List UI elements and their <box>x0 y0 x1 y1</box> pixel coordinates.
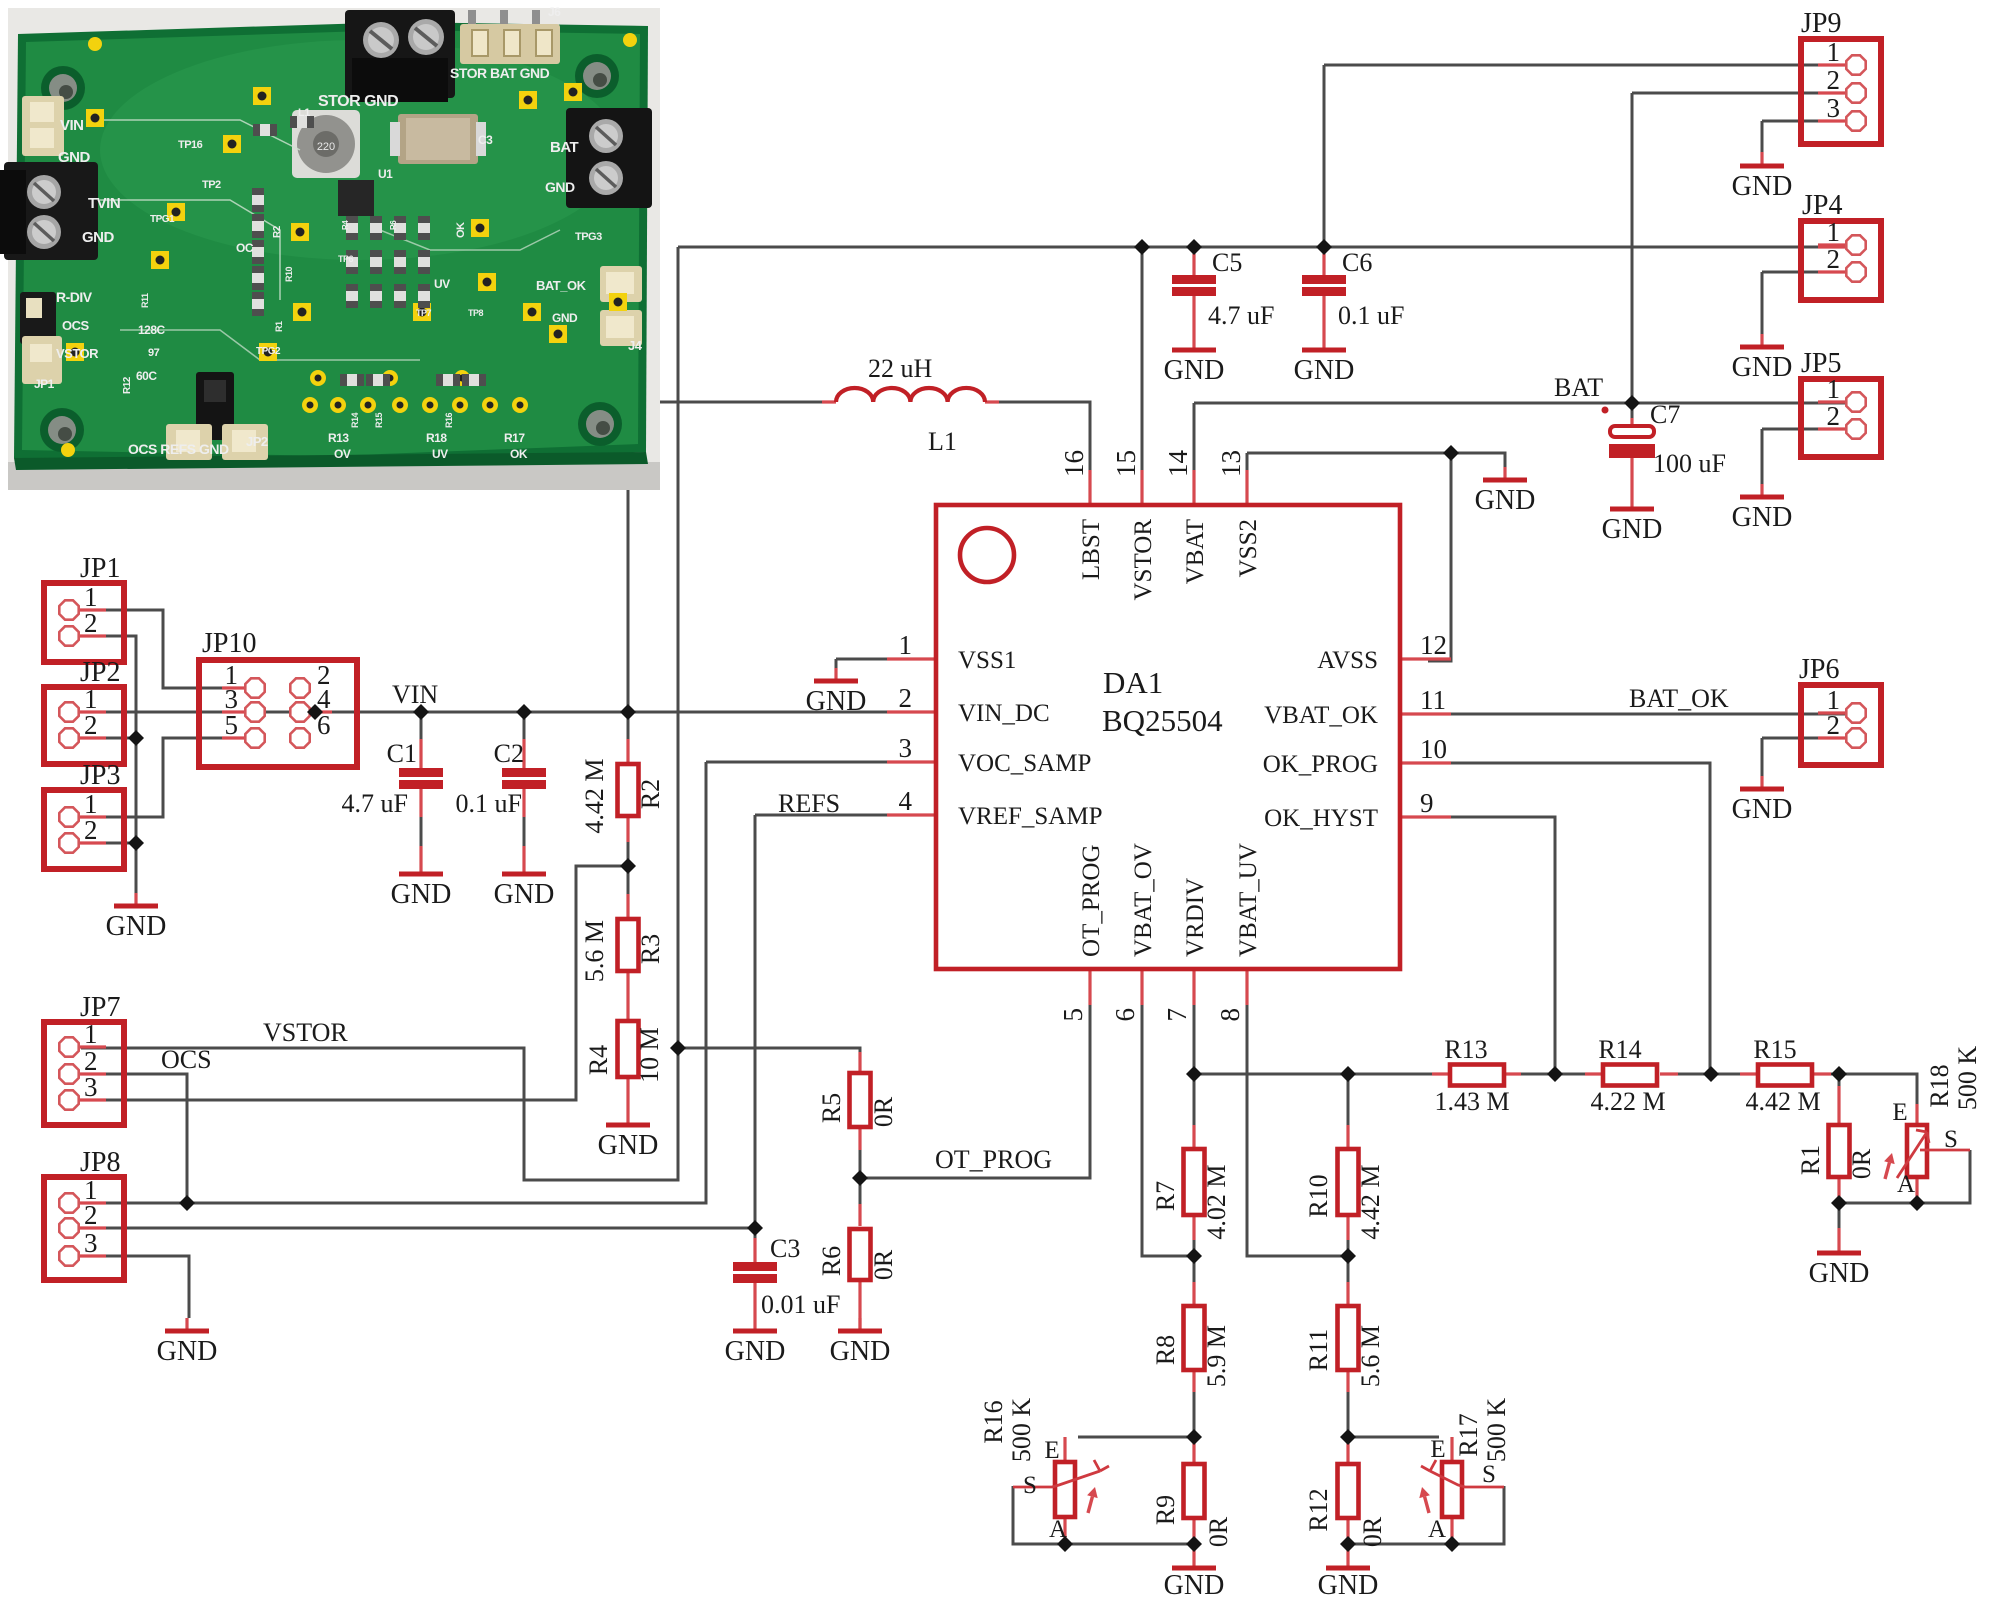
svg-text:U1: U1 <box>378 167 393 181</box>
svg-text:JP8: JP8 <box>80 1147 120 1178</box>
svg-text:1: 1 <box>899 630 913 660</box>
svg-text:15: 15 <box>1111 450 1141 477</box>
svg-text:GND: GND <box>1164 1570 1225 1597</box>
svg-text:R11: R11 <box>1304 1329 1333 1371</box>
svg-text:JP1: JP1 <box>80 553 120 584</box>
svg-text:R7: R7 <box>1151 1181 1180 1211</box>
svg-text:2: 2 <box>84 1200 98 1230</box>
svg-text:R13: R13 <box>1444 1035 1487 1064</box>
svg-text:JP2: JP2 <box>246 434 268 449</box>
svg-text:OK: OK <box>510 447 528 461</box>
svg-text:OK_PROG: OK_PROG <box>1263 751 1378 778</box>
svg-text:R17: R17 <box>1454 1413 1483 1456</box>
svg-text:GND: GND <box>552 311 578 325</box>
svg-text:4.7 uF: 4.7 uF <box>1208 301 1274 330</box>
svg-text:500 K: 500 K <box>1482 1398 1511 1463</box>
svg-text:2: 2 <box>1827 401 1841 431</box>
svg-text:1: 1 <box>1827 37 1841 67</box>
svg-text:R17: R17 <box>504 431 525 445</box>
svg-text:L1: L1 <box>298 107 310 119</box>
svg-text:6: 6 <box>317 710 331 740</box>
svg-text:R4: R4 <box>341 220 350 230</box>
svg-text:5.6 M: 5.6 M <box>1356 1325 1385 1387</box>
svg-text:VIN: VIN <box>392 680 438 709</box>
svg-text:0.1 uF: 0.1 uF <box>1338 301 1404 330</box>
svg-text:OK: OK <box>455 222 467 238</box>
svg-text:R18: R18 <box>1925 1064 1954 1107</box>
svg-text:2: 2 <box>1827 710 1841 740</box>
svg-text:BAT: BAT <box>1554 373 1603 402</box>
svg-text:R14: R14 <box>1598 1035 1641 1064</box>
svg-text:60C: 60C <box>136 369 157 383</box>
svg-text:GND: GND <box>1732 794 1793 825</box>
svg-text:7: 7 <box>1162 1008 1192 1022</box>
svg-text:GND: GND <box>598 1130 659 1161</box>
svg-text:JP6: JP6 <box>1799 654 1839 685</box>
svg-text:S: S <box>1944 1126 1958 1153</box>
svg-text:VSS2: VSS2 <box>1235 519 1262 577</box>
svg-text:R12: R12 <box>122 376 133 394</box>
svg-text:R1: R1 <box>274 321 284 332</box>
svg-text:GND: GND <box>106 911 167 942</box>
svg-text:R2: R2 <box>272 225 283 238</box>
svg-text:GND: GND <box>157 1336 218 1367</box>
svg-text:S: S <box>1023 1472 1037 1499</box>
svg-text:TP6: TP6 <box>338 254 354 264</box>
svg-text:OC: OC <box>236 241 254 255</box>
svg-text:UV: UV <box>434 277 450 291</box>
svg-text:VSTOR: VSTOR <box>56 346 99 361</box>
svg-text:R-DIV: R-DIV <box>56 289 93 305</box>
svg-text:BQ25504: BQ25504 <box>1102 703 1223 738</box>
svg-text:R9: R9 <box>1151 1495 1180 1525</box>
svg-text:E: E <box>1892 1099 1907 1126</box>
svg-text:LBST: LBST <box>1078 519 1105 580</box>
svg-text:GND: GND <box>1475 485 1536 516</box>
svg-text:4: 4 <box>899 786 913 816</box>
svg-text:3: 3 <box>899 733 913 763</box>
svg-text:R10: R10 <box>1304 1174 1333 1217</box>
svg-text:TPG3: TPG3 <box>575 231 602 243</box>
svg-text:GND: GND <box>494 879 555 910</box>
svg-text:R16: R16 <box>444 412 454 428</box>
svg-text:0.01 uF: 0.01 uF <box>761 1290 840 1319</box>
svg-text:VBAT_OV: VBAT_OV <box>1130 843 1157 957</box>
svg-text:11: 11 <box>1420 685 1446 715</box>
svg-text:4.22 M: 4.22 M <box>1590 1087 1665 1116</box>
svg-text:2: 2 <box>1827 244 1841 274</box>
svg-text:2: 2 <box>84 815 98 845</box>
svg-text:128C: 128C <box>138 323 166 337</box>
svg-text:8: 8 <box>1215 1008 1245 1022</box>
svg-text:1.43 M: 1.43 M <box>1434 1087 1509 1116</box>
svg-text:16: 16 <box>1059 450 1089 477</box>
svg-text:AVSS: AVSS <box>1317 647 1378 674</box>
svg-text:BAT_OK: BAT_OK <box>536 278 587 293</box>
svg-text:R4: R4 <box>584 1045 613 1075</box>
svg-text:E: E <box>1430 1436 1445 1463</box>
svg-text:OT_PROG: OT_PROG <box>1078 844 1105 957</box>
svg-text:STOR BAT GND: STOR BAT GND <box>450 65 550 81</box>
svg-text:JP1: JP1 <box>34 377 55 391</box>
svg-text:C5: C5 <box>1212 248 1242 277</box>
svg-text:R16: R16 <box>979 1400 1008 1443</box>
svg-text:TP7: TP7 <box>416 308 432 318</box>
svg-text:5: 5 <box>1058 1008 1088 1022</box>
svg-text:OV: OV <box>334 447 351 461</box>
svg-text:GND: GND <box>1294 355 1355 386</box>
svg-text:VBAT_UV: VBAT_UV <box>1235 843 1262 957</box>
svg-text:1: 1 <box>1827 217 1841 247</box>
svg-text:1: 1 <box>84 1019 98 1049</box>
svg-text:A: A <box>1428 1516 1446 1543</box>
svg-text:VBAT: VBAT <box>1182 519 1209 584</box>
svg-text:220: 220 <box>317 141 335 153</box>
svg-text:12: 12 <box>1420 630 1447 660</box>
svg-text:GND: GND <box>1318 1570 1379 1597</box>
svg-text:R2: R2 <box>636 779 665 809</box>
svg-text:OT_PROG: OT_PROG <box>935 1145 1052 1174</box>
svg-text:R6: R6 <box>389 220 398 230</box>
svg-text:2: 2 <box>84 608 98 638</box>
svg-text:3: 3 <box>84 1228 98 1258</box>
svg-text:R1: R1 <box>1796 1145 1825 1175</box>
svg-text:4.7 uF: 4.7 uF <box>342 789 408 818</box>
svg-text:0R: 0R <box>1358 1516 1387 1547</box>
svg-text:GND: GND <box>58 149 91 166</box>
svg-text:VOC_SAMP: VOC_SAMP <box>958 750 1091 777</box>
svg-text:5.6 M: 5.6 M <box>580 920 609 982</box>
svg-text:0R: 0R <box>1847 1148 1876 1179</box>
svg-text:R15: R15 <box>374 412 384 428</box>
svg-text:UV: UV <box>432 447 448 461</box>
svg-text:GND: GND <box>391 879 452 910</box>
svg-text:A: A <box>1897 1171 1915 1198</box>
svg-text:R12: R12 <box>1304 1488 1333 1531</box>
svg-text:R6: R6 <box>817 1246 846 1276</box>
svg-text:10 M: 10 M <box>635 1027 664 1083</box>
svg-text:VIN: VIN <box>60 117 84 134</box>
svg-text:GND: GND <box>1732 502 1793 533</box>
svg-text:R8: R8 <box>1151 1335 1180 1365</box>
svg-text:TVIN: TVIN <box>88 195 120 212</box>
svg-text:TPG1: TPG1 <box>150 214 175 225</box>
svg-text:TPG2: TPG2 <box>256 346 281 357</box>
svg-text:TP2: TP2 <box>202 179 221 191</box>
svg-text:J6: J6 <box>548 5 561 19</box>
svg-text:VREF_SAMP: VREF_SAMP <box>958 803 1103 830</box>
svg-text:VIN_DC: VIN_DC <box>958 700 1050 727</box>
svg-text:GND: GND <box>830 1336 891 1367</box>
svg-text:BAT: BAT <box>550 139 579 156</box>
svg-text:R10: R10 <box>284 266 294 282</box>
svg-text:GND: GND <box>1732 352 1793 383</box>
svg-text:GND: GND <box>1809 1258 1870 1289</box>
svg-text:GND: GND <box>1164 355 1225 386</box>
svg-text:GND: GND <box>806 686 867 717</box>
svg-text:22 uH: 22 uH <box>868 354 933 383</box>
svg-text:VSTOR: VSTOR <box>1130 519 1157 601</box>
svg-text:2: 2 <box>899 683 913 713</box>
svg-text:3: 3 <box>1827 93 1841 123</box>
svg-text:JP9: JP9 <box>1801 8 1841 39</box>
svg-text:VRDIV: VRDIV <box>1182 878 1209 957</box>
svg-text:500 K: 500 K <box>1953 1046 1982 1111</box>
svg-text:C7: C7 <box>1650 400 1680 429</box>
svg-text:R5: R5 <box>817 1093 846 1123</box>
svg-text:R15: R15 <box>1753 1035 1796 1064</box>
svg-text:JP3: JP3 <box>80 760 120 791</box>
svg-text:1: 1 <box>1827 374 1841 404</box>
svg-text:0.1 uF: 0.1 uF <box>456 789 522 818</box>
svg-text:STOR GND: STOR GND <box>318 93 398 110</box>
svg-text:VSS1: VSS1 <box>958 647 1016 674</box>
svg-text:TP16: TP16 <box>178 139 203 151</box>
svg-text:R13: R13 <box>328 431 349 445</box>
svg-text:GND: GND <box>1602 514 1663 545</box>
svg-text:0R: 0R <box>869 1096 898 1127</box>
svg-text:BAT_OK: BAT_OK <box>1629 684 1729 713</box>
svg-text:C2: C2 <box>494 739 524 768</box>
svg-text:E: E <box>1044 1437 1059 1464</box>
svg-text:R3: R3 <box>636 934 665 964</box>
svg-text:14: 14 <box>1163 450 1193 478</box>
svg-text:13: 13 <box>1216 450 1246 477</box>
svg-text:GND: GND <box>545 179 575 195</box>
svg-text:R18: R18 <box>426 431 447 445</box>
svg-text:4.42 M: 4.42 M <box>580 758 609 833</box>
svg-text:JP10: JP10 <box>202 628 256 659</box>
svg-text:OCS: OCS <box>161 1045 212 1074</box>
svg-text:4.02 M: 4.02 M <box>1202 1164 1231 1239</box>
svg-text:2: 2 <box>1827 65 1841 95</box>
svg-text:2: 2 <box>84 710 98 740</box>
svg-text:GND: GND <box>82 229 115 246</box>
svg-text:5: 5 <box>225 710 239 740</box>
svg-text:L1: L1 <box>928 427 957 456</box>
svg-text:C3: C3 <box>770 1234 800 1263</box>
svg-text:S: S <box>1482 1461 1496 1488</box>
svg-text:REFS: REFS <box>778 789 840 818</box>
svg-text:4.42 M: 4.42 M <box>1745 1087 1820 1116</box>
svg-text:3: 3 <box>84 1072 98 1102</box>
svg-text:C1: C1 <box>387 739 417 768</box>
svg-text:VSTOR: VSTOR <box>263 1018 348 1047</box>
svg-text:TP8: TP8 <box>468 308 484 318</box>
svg-text:OK_HYST: OK_HYST <box>1264 805 1378 832</box>
svg-text:VBAT_OK: VBAT_OK <box>1264 702 1378 729</box>
svg-text:97: 97 <box>148 347 160 359</box>
svg-text:R11: R11 <box>140 293 150 308</box>
svg-text:0R: 0R <box>869 1249 898 1280</box>
svg-text:C6: C6 <box>1342 248 1372 277</box>
svg-text:C3: C3 <box>478 133 493 147</box>
svg-text:100 uF: 100 uF <box>1653 449 1726 478</box>
svg-text:R14: R14 <box>350 412 360 428</box>
svg-text:GND: GND <box>1732 171 1793 202</box>
svg-text:0R: 0R <box>1204 1516 1233 1547</box>
svg-text:OCS REFS GND: OCS REFS GND <box>128 441 229 457</box>
svg-text:500 K: 500 K <box>1007 1398 1036 1463</box>
svg-text:GND: GND <box>725 1336 786 1367</box>
svg-text:OCS: OCS <box>62 318 90 333</box>
svg-text:9: 9 <box>1420 788 1434 818</box>
svg-text:DA1: DA1 <box>1103 665 1163 700</box>
svg-text:10: 10 <box>1420 734 1447 764</box>
svg-text:6: 6 <box>1110 1008 1140 1022</box>
svg-text:5.9 M: 5.9 M <box>1202 1325 1231 1387</box>
svg-text:A: A <box>1049 1516 1067 1543</box>
svg-text:J4: J4 <box>628 338 643 353</box>
svg-text:4.42 M: 4.42 M <box>1356 1164 1385 1239</box>
